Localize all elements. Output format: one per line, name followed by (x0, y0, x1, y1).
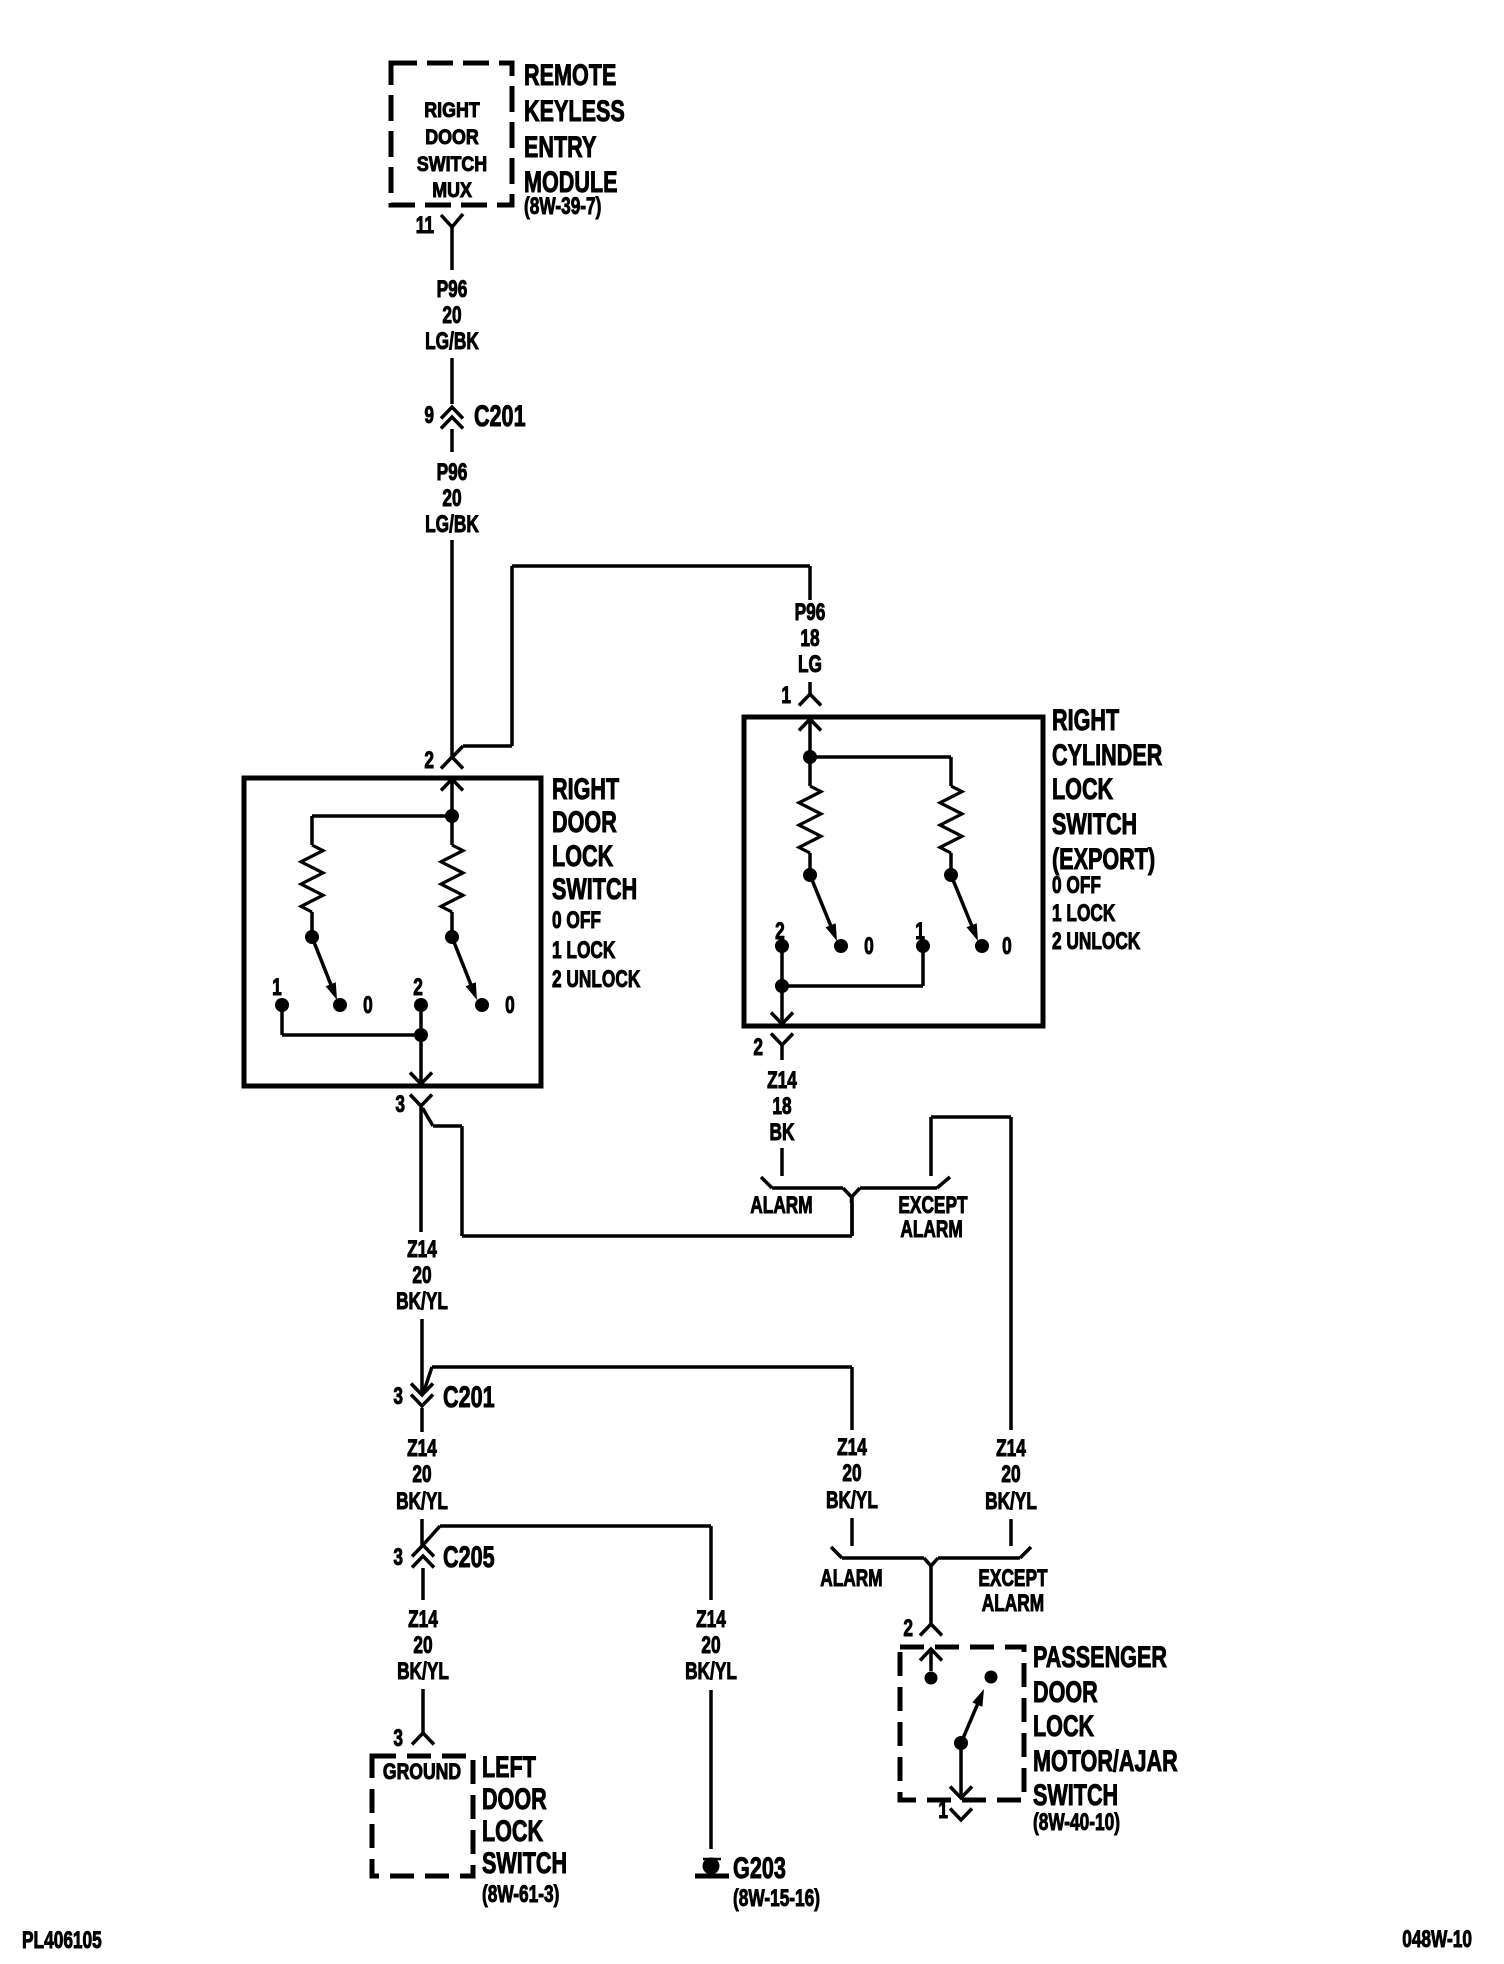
svg-text:BK/YL: BK/YL (685, 1658, 737, 1684)
svg-text:LEFT: LEFT (482, 1749, 536, 1783)
svg-text:20: 20 (842, 1460, 861, 1486)
svg-text:P96: P96 (437, 459, 468, 485)
svg-text:ALARM: ALARM (982, 1590, 1044, 1616)
svg-text:SWITCH: SWITCH (552, 871, 637, 905)
svg-text:DOOR: DOOR (482, 1781, 547, 1815)
svg-text:ENTRY: ENTRY (524, 129, 596, 163)
svg-text:Z14: Z14 (408, 1606, 438, 1632)
svg-text:2 UNLOCK: 2 UNLOCK (1052, 928, 1140, 954)
svg-text:0 OFF: 0 OFF (1052, 872, 1101, 898)
svg-text:RIGHT: RIGHT (1052, 702, 1119, 736)
svg-text:11: 11 (416, 212, 435, 238)
svg-text:Z14: Z14 (767, 1067, 797, 1093)
svg-text:(8W-61-3): (8W-61-3) (482, 1881, 559, 1907)
svg-text:1: 1 (781, 682, 791, 708)
svg-text:1: 1 (938, 1797, 948, 1823)
svg-text:GROUND: GROUND (383, 1760, 461, 1784)
svg-text:LOCK: LOCK (1052, 771, 1113, 805)
svg-text:SWITCH: SWITCH (1052, 806, 1137, 840)
svg-text:20: 20 (412, 1461, 431, 1487)
svg-text:0: 0 (505, 992, 515, 1018)
svg-text:Z14: Z14 (837, 1434, 867, 1460)
svg-text:SWITCH: SWITCH (482, 1845, 567, 1879)
svg-text:EXCEPT: EXCEPT (978, 1565, 1047, 1591)
svg-text:0: 0 (1002, 933, 1012, 959)
svg-text:ALARM: ALARM (820, 1565, 882, 1591)
svg-text:(8W-39-7): (8W-39-7) (524, 193, 601, 219)
svg-text:1 LOCK: 1 LOCK (1052, 900, 1115, 926)
svg-text:CYLINDER: CYLINDER (1052, 737, 1162, 771)
svg-text:(8W-15-16): (8W-15-16) (733, 1885, 820, 1911)
svg-text:G203: G203 (733, 1850, 786, 1884)
svg-text:Z14: Z14 (407, 1236, 437, 1262)
svg-text:ALARM: ALARM (750, 1192, 812, 1218)
svg-text:20: 20 (442, 302, 461, 328)
svg-text:LG: LG (798, 651, 822, 677)
svg-text:MUX: MUX (432, 179, 472, 203)
svg-text:C205: C205 (443, 1539, 495, 1573)
svg-text:RIGHT: RIGHT (552, 771, 619, 805)
svg-text:2: 2 (775, 918, 785, 944)
svg-text:2: 2 (424, 747, 434, 773)
svg-text:PL406105: PL406105 (22, 1927, 102, 1953)
svg-text:0 OFF: 0 OFF (552, 907, 601, 933)
svg-text:18: 18 (800, 625, 819, 651)
svg-text:3: 3 (393, 1725, 403, 1751)
svg-text:1: 1 (915, 918, 925, 944)
svg-text:BK/YL: BK/YL (826, 1487, 878, 1513)
svg-text:DOOR: DOOR (552, 804, 617, 838)
svg-text:0: 0 (363, 992, 373, 1018)
svg-text:Z14: Z14 (407, 1435, 437, 1461)
svg-text:C201: C201 (474, 398, 526, 432)
svg-text:2: 2 (413, 974, 423, 1000)
svg-text:LOCK: LOCK (1033, 1708, 1094, 1742)
svg-text:ALARM: ALARM (900, 1216, 962, 1242)
svg-text:20: 20 (701, 1632, 720, 1658)
svg-text:LOCK: LOCK (552, 838, 613, 872)
svg-text:PASSENGER: PASSENGER (1033, 1639, 1167, 1673)
svg-text:MOTOR/AJAR: MOTOR/AJAR (1033, 1743, 1178, 1777)
svg-text:1: 1 (272, 974, 282, 1000)
svg-text:9: 9 (424, 402, 434, 428)
svg-text:BK/YL: BK/YL (985, 1488, 1037, 1514)
svg-text:LG/BK: LG/BK (425, 328, 479, 354)
svg-text:048W-10: 048W-10 (1402, 1926, 1472, 1952)
svg-text:KEYLESS: KEYLESS (524, 93, 625, 127)
svg-text:P96: P96 (437, 276, 468, 302)
svg-text:SWITCH: SWITCH (1033, 1777, 1118, 1811)
svg-text:C201: C201 (443, 1379, 495, 1413)
svg-text:REMOTE: REMOTE (524, 57, 616, 91)
svg-text:DOOR: DOOR (425, 126, 478, 150)
svg-text:1 LOCK: 1 LOCK (552, 937, 615, 963)
svg-text:(8W-40-10): (8W-40-10) (1033, 1809, 1120, 1835)
svg-text:SWITCH: SWITCH (417, 153, 487, 177)
svg-text:0: 0 (864, 933, 874, 959)
svg-text:LOCK: LOCK (482, 1813, 543, 1847)
svg-text:EXCEPT: EXCEPT (898, 1192, 967, 1218)
svg-text:18: 18 (772, 1093, 791, 1119)
svg-text:20: 20 (413, 1632, 432, 1658)
svg-text:RIGHT: RIGHT (424, 99, 480, 123)
svg-text:BK: BK (770, 1119, 795, 1145)
svg-text:BK/YL: BK/YL (397, 1658, 449, 1684)
svg-text:3: 3 (393, 1383, 403, 1409)
svg-text:Z14: Z14 (996, 1435, 1026, 1461)
svg-text:(EXPORT): (EXPORT) (1052, 841, 1155, 875)
svg-text:20: 20 (442, 485, 461, 511)
svg-text:2 UNLOCK: 2 UNLOCK (552, 966, 640, 992)
svg-text:3: 3 (395, 1091, 405, 1117)
svg-text:20: 20 (412, 1262, 431, 1288)
svg-text:BK/YL: BK/YL (396, 1488, 448, 1514)
svg-text:P96: P96 (795, 599, 826, 625)
svg-text:DOOR: DOOR (1033, 1674, 1098, 1708)
svg-text:LG/BK: LG/BK (425, 511, 479, 537)
svg-text:20: 20 (1001, 1461, 1020, 1487)
svg-text:BK/YL: BK/YL (396, 1288, 448, 1314)
svg-text:Z14: Z14 (696, 1606, 726, 1632)
svg-text:2: 2 (903, 1615, 913, 1641)
svg-text:2: 2 (753, 1034, 763, 1060)
svg-text:3: 3 (393, 1544, 403, 1570)
